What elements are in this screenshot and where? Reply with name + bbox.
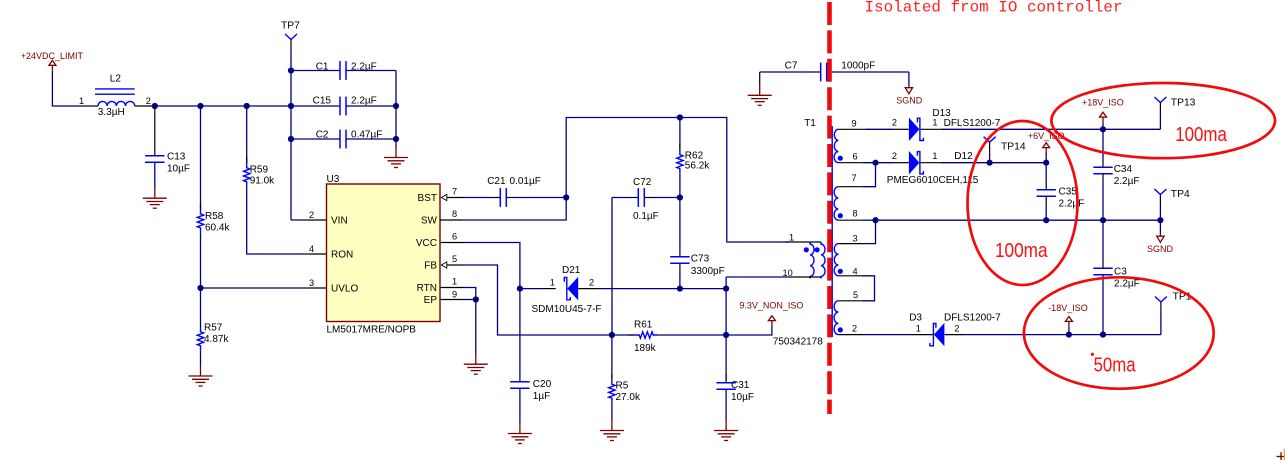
svg-text:7: 7 (852, 173, 857, 183)
test point TP14 (984, 137, 1026, 166)
wire pin9 to D13 (838, 128, 909, 130)
diode D3 (909, 312, 1001, 346)
capacitor C72 (612, 177, 680, 222)
svg-text:100ma: 100ma (995, 240, 1048, 262)
resistor R62 (677, 118, 711, 198)
junction node RTN/EP (473, 296, 479, 302)
wire SW net (464, 118, 791, 243)
resistor R58 (197, 106, 230, 234)
junction node VCC/D21 (517, 286, 523, 292)
capacitor C13 (145, 106, 190, 198)
svg-text:2: 2 (892, 117, 897, 127)
annotation dot above 50ma (1091, 353, 1094, 356)
diode D13 (892, 108, 1001, 141)
svg-text:3.3µH: 3.3µH (98, 107, 125, 118)
ground under C20 (508, 434, 532, 444)
svg-text:5: 5 (853, 290, 858, 300)
svg-text:FB: FB (424, 261, 437, 272)
wire pin10 to riser (726, 276, 790, 278)
svg-text:2.2µF: 2.2µF (351, 61, 377, 72)
power symbol 9.3V_NON_ISO (739, 300, 803, 326)
svg-text:C3: C3 (1114, 266, 1127, 277)
svg-text:EP: EP (424, 295, 438, 306)
svg-text:3: 3 (853, 234, 858, 244)
ground under EP (464, 364, 488, 374)
ground under C31 (714, 431, 738, 441)
svg-text:DFLS1200-7: DFLS1200-7 (944, 118, 1001, 129)
svg-text:SW: SW (421, 216, 438, 227)
svg-text:9: 9 (452, 289, 457, 299)
transformer secondary winding 5-2 (834, 290, 858, 335)
diode D12 (887, 151, 979, 186)
svg-text:SDM10U45-7-F: SDM10U45-7-F (532, 304, 602, 315)
wire EP net (464, 299, 476, 301)
junction node L2/C13 (152, 103, 158, 109)
svg-text:1: 1 (550, 277, 555, 287)
svg-text:2: 2 (954, 324, 959, 334)
wire main input rail (155, 105, 340, 107)
wire EP to ground (475, 300, 477, 365)
svg-text:UVLO: UVLO (331, 284, 358, 295)
junction node C2 left (288, 136, 294, 142)
capacitor C73 (670, 198, 725, 289)
svg-text:RTN: RTN (417, 283, 437, 294)
transformer T1 primary winding (783, 232, 826, 278)
svg-text:U3: U3 (327, 174, 340, 185)
junction node pin8/pin3 (872, 217, 878, 223)
svg-text:750342178: 750342178 (773, 337, 823, 348)
svg-text:R5: R5 (616, 380, 629, 391)
svg-text:10µF: 10µF (731, 392, 754, 403)
junction node C1 left (288, 67, 294, 73)
resistor R5 (609, 335, 641, 431)
svg-text:PMEG6010CEH,115: PMEG6010CEH,115 (887, 175, 979, 186)
junction node UVLO (197, 285, 203, 291)
svg-text:-18V_ISO: -18V_ISO (1048, 303, 1088, 313)
svg-text:1: 1 (916, 324, 921, 334)
svg-text:TP13: TP13 (1171, 97, 1196, 108)
svg-text:VIN: VIN (331, 216, 348, 227)
wire C72 left vertical down (611, 198, 613, 336)
isolation barrier dashed line (827, 2, 832, 414)
ground under cap bank (384, 158, 408, 168)
junction node C35 bottom (1043, 217, 1049, 223)
svg-text:BST: BST (418, 193, 437, 204)
svg-text:TP1: TP1 (1173, 292, 1192, 303)
corner plus mark (1277, 449, 1285, 460)
svg-text:9: 9 (852, 119, 857, 129)
svg-text:2: 2 (852, 324, 857, 334)
svg-text:SGND: SGND (896, 95, 923, 105)
svg-text:9.3V_NON_ISO: 9.3V_NON_ISO (739, 300, 803, 310)
svg-text:C72: C72 (633, 177, 652, 188)
svg-text:100ma: 100ma (1175, 124, 1227, 146)
junction node +18V/C34 (1100, 126, 1106, 132)
svg-text:6: 6 (452, 231, 457, 241)
wire 9.3V stub (726, 326, 772, 335)
svg-text:TP7: TP7 (281, 21, 300, 32)
junction node TP4 (1157, 217, 1163, 223)
svg-text:C31: C31 (731, 380, 750, 391)
U3 pin 3 UVLO stub (201, 287, 327, 289)
svg-text:0.1µF: 0.1µF (633, 211, 659, 222)
pin arrow BST (441, 194, 446, 200)
wire pin4 to pin5 series link (838, 276, 874, 301)
svg-text:1: 1 (932, 151, 937, 161)
wire pin8 to rail (838, 219, 875, 221)
IC U3 LM5017MRE/NOPB body (327, 174, 441, 336)
svg-text:91.0k: 91.0k (250, 176, 275, 187)
svg-text:TP14: TP14 (1001, 142, 1026, 153)
svg-text:2.2µF: 2.2µF (351, 95, 377, 106)
capacitor C31 (716, 335, 754, 431)
pin arrow FB (441, 262, 446, 268)
power symbol +18V_ISO (1082, 97, 1124, 129)
svg-text:2: 2 (146, 96, 151, 106)
junction node R62 top (677, 114, 683, 120)
resistor R61 (612, 319, 726, 354)
junction node C2 right (393, 136, 399, 142)
wire +6V rail (941, 162, 1046, 164)
svg-text:0.47µF: 0.47µF (351, 129, 382, 140)
wire R57 to ground (200, 351, 202, 376)
svg-text:1000pF: 1000pF (841, 61, 875, 72)
ground under C7 (748, 95, 772, 105)
svg-text:D21: D21 (562, 265, 581, 276)
capacitor C35 (1037, 163, 1085, 221)
svg-text:L2: L2 (110, 74, 122, 85)
U3 pin names (331, 193, 438, 306)
transformer T1 core (831, 126, 833, 337)
wire D21 output to C73 and pin10 (598, 288, 726, 290)
annotation ellipse 100ma top (1051, 83, 1275, 158)
wire +18V rail (941, 128, 1160, 130)
svg-text:R58: R58 (205, 211, 224, 222)
capacitor C7 (760, 61, 909, 82)
junction node R61/C31/pin10 (723, 332, 729, 338)
ground under C13 (143, 198, 167, 208)
svg-text:6: 6 (853, 152, 858, 162)
sgnd symbol near C7 (896, 85, 923, 105)
wire TP7 down to cap bank (290, 50, 292, 221)
capacitor C34 (1093, 129, 1139, 220)
svg-text:10µF: 10µF (167, 164, 190, 175)
capacitor C20 (510, 377, 551, 434)
test point TP7 (281, 21, 300, 50)
svg-text:DFLS1200-7: DFLS1200-7 (944, 312, 1001, 323)
svg-text:LM5017MRE/NOPB: LM5017MRE/NOPB (327, 325, 417, 336)
test point TP13 (1154, 97, 1195, 129)
junction node R58 top (197, 103, 203, 109)
transformer secondary winding 3-4 (834, 234, 858, 277)
svg-text:C34: C34 (1114, 164, 1133, 175)
svg-text:C73: C73 (691, 254, 710, 265)
svg-text:7: 7 (452, 186, 457, 196)
svg-text:2.2µF: 2.2µF (1059, 199, 1085, 210)
wire cap bank right vertical (395, 71, 397, 148)
svg-text:+18V_ISO: +18V_ISO (1082, 97, 1124, 107)
svg-text:2.2µF: 2.2µF (1114, 176, 1140, 187)
svg-text:Isolated from IO controller: Isolated from IO controller (865, 0, 1123, 17)
power symbol -18V_ISO (1048, 303, 1088, 338)
sgnd symbol under TP4 (1147, 220, 1174, 254)
wire R59 to RON (247, 187, 327, 254)
wire C7 right to SGND (908, 72, 910, 85)
wire VCC net (464, 243, 520, 378)
resistor R57 (197, 323, 229, 351)
svg-text:1: 1 (932, 117, 937, 127)
test point TP1 (1155, 292, 1192, 335)
U3 pin numbers (309, 186, 457, 299)
svg-text:1: 1 (79, 96, 84, 106)
svg-text:D12: D12 (954, 151, 973, 162)
wire R58 to UVLO node (200, 233, 202, 327)
svg-text:8: 8 (452, 209, 457, 219)
svg-text:C1: C1 (316, 61, 329, 72)
wire -18V rail (963, 334, 1161, 336)
capacitor C21 (464, 176, 567, 207)
transformer secondary winding 9-6 (834, 119, 858, 163)
wire 0V rail (876, 219, 1161, 221)
ground under R5 (600, 431, 624, 441)
svg-text:R61: R61 (634, 319, 653, 330)
svg-text:2: 2 (892, 151, 897, 161)
power symbol +24VDC_LIMIT (21, 51, 84, 71)
svg-text:4: 4 (309, 244, 314, 254)
wire pin7 up to pin6 (838, 163, 875, 187)
svg-text:R59: R59 (250, 165, 269, 176)
svg-text:2: 2 (589, 277, 594, 287)
junction node C3 bottom (1100, 332, 1106, 338)
diode D21 (520, 265, 602, 315)
svg-text:1: 1 (452, 276, 457, 286)
svg-text:4.87k: 4.87k (204, 334, 229, 345)
junction node C34 bottom (1100, 217, 1106, 223)
svg-text:C13: C13 (167, 152, 186, 163)
resistor R59 (244, 106, 276, 187)
svg-text:56.2k: 56.2k (685, 161, 710, 172)
transformer secondary winding 7-8 (834, 173, 858, 220)
junction node R59 top (244, 103, 250, 109)
wire pin6 to D12 (838, 162, 909, 164)
inductor L2 (79, 74, 155, 118)
svg-text:SGND: SGND (1147, 244, 1174, 254)
junction node C21/SW (563, 194, 569, 200)
wire C7 left to ground (759, 72, 761, 95)
svg-text:C7: C7 (785, 61, 798, 72)
svg-text:50ma: 50ma (1094, 355, 1137, 377)
svg-text:RON: RON (331, 250, 353, 261)
svg-text:VCC: VCC (416, 238, 437, 249)
svg-text:+24VDC_LIMIT: +24VDC_LIMIT (21, 51, 84, 61)
wire pin10 riser vertical (725, 277, 727, 335)
svg-text:C35: C35 (1059, 187, 1078, 198)
svg-text:1: 1 (789, 232, 794, 242)
junction node pin10 riser (723, 286, 729, 292)
svg-text:3: 3 (309, 278, 314, 288)
svg-text:27.0k: 27.0k (616, 392, 641, 403)
svg-text:8: 8 (853, 209, 858, 219)
wire RTN net (464, 288, 476, 300)
svg-text:189k: 189k (634, 343, 657, 354)
test point TP4 (1154, 189, 1190, 220)
svg-text:D3: D3 (909, 312, 922, 323)
wire VIN connection (291, 219, 327, 221)
svg-text:TP4: TP4 (1171, 189, 1190, 200)
wire +24VDC to L2 (52, 71, 88, 106)
junction node FB/R61/R5 (609, 332, 615, 338)
svg-text:C20: C20 (533, 379, 552, 390)
svg-text:2: 2 (309, 210, 314, 220)
svg-text:C21: C21 (487, 176, 506, 187)
svg-text:3300pF: 3300pF (691, 266, 725, 277)
capacitor C2 (291, 129, 396, 148)
svg-text:C15: C15 (313, 95, 332, 106)
power symbol +6V_ISO (1028, 131, 1065, 166)
transformer primary phase dots (804, 247, 809, 252)
wire pin2 to D3 (838, 334, 933, 336)
junction node C73 bottom (677, 286, 683, 292)
U3 right pin stubs (440, 198, 464, 300)
annotation ellipse 100ma middle (968, 121, 1078, 285)
annotation ellipse 50ma bottom (1024, 277, 1214, 388)
capacitor C15 (313, 95, 396, 115)
svg-text:R57: R57 (204, 323, 223, 334)
svg-text:0.01µF: 0.01µF (510, 176, 541, 187)
wire FB net (464, 265, 612, 335)
junction node C15 left (288, 103, 294, 109)
svg-text:1µF: 1µF (533, 391, 550, 402)
svg-text:2.2µF: 2.2µF (1114, 278, 1140, 289)
svg-text:60.4k: 60.4k (205, 223, 230, 234)
svg-text:T1: T1 (804, 118, 816, 129)
svg-text:5: 5 (452, 254, 457, 264)
svg-text:4: 4 (853, 267, 858, 277)
ground under R57 (189, 376, 213, 386)
junction node C72/R62 (677, 194, 683, 200)
svg-text:C2: C2 (316, 129, 329, 140)
junction node pin6/pin7 (872, 160, 878, 166)
junction node C15 right (393, 103, 399, 109)
capacitor C3 (1093, 220, 1139, 334)
wire pin3 up to pin8 (838, 220, 875, 243)
capacitor C1 (291, 61, 396, 80)
